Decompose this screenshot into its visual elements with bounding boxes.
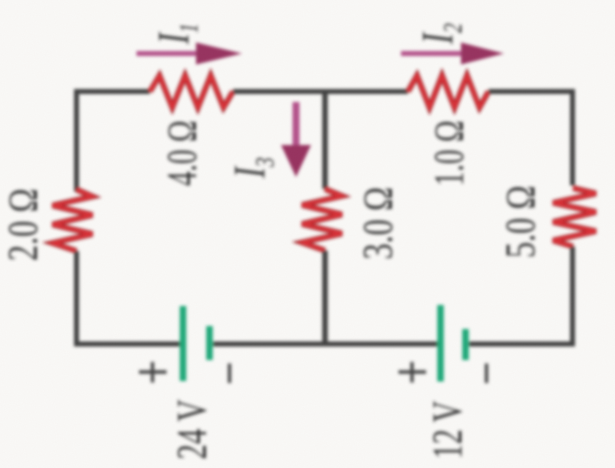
- plus sign for B2: [399, 362, 427, 383]
- battery B1 24V short plate: [206, 326, 213, 360]
- wire bottom-middle segment: [213, 342, 438, 347]
- wire left upper segment: [74, 89, 79, 192]
- battery B2 12V short plate: [462, 329, 469, 360]
- wire top-left segment: [75, 89, 151, 94]
- resistor R4 3.0 ohm zigzag: [302, 189, 342, 251]
- resistor R3 2.0 ohm zigzag: [53, 190, 93, 252]
- plus sign for B1: [139, 362, 167, 383]
- wire bottom-left segment: [74, 342, 180, 347]
- wire middle lower segment: [322, 251, 328, 345]
- minus sign for B1: [228, 364, 231, 384]
- wire right lower segment: [570, 247, 575, 347]
- resistor R1 4.0 ohm zigzag: [150, 76, 233, 108]
- resistor R2 1.0 ohm zigzag: [408, 76, 489, 108]
- wire left lower segment: [74, 251, 79, 347]
- wire right upper segment: [570, 89, 575, 186]
- battery B1 24V long plate: [180, 306, 187, 381]
- wire bottom-right segment: [469, 342, 575, 347]
- wire top-right segment: [489, 89, 576, 94]
- current arrow I2: [401, 43, 504, 65]
- wire top-middle segment: [233, 89, 408, 94]
- current arrow I3: [281, 102, 311, 177]
- current arrow I1: [137, 43, 243, 65]
- wire middle upper segment: [322, 89, 328, 189]
- minus sign for B2: [485, 364, 488, 384]
- resistor R5 5.0 ohm zigzag: [553, 188, 596, 247]
- battery B2 12V long plate: [437, 305, 444, 382]
